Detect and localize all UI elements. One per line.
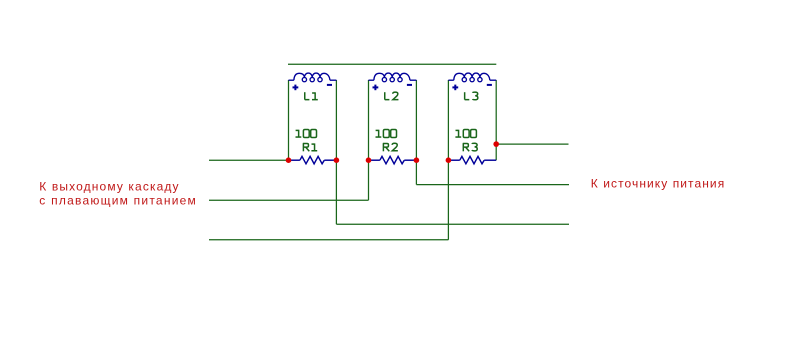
wire: left lead row 3 (to L3 cell bottom-left): [209, 239, 448, 241]
polarity - of L3: [487, 84, 492, 86]
wire: L1 cell right vertical: [335, 80, 337, 224]
label L3: [465, 92, 478, 100]
wire: right lead from L2 cell bottom-right: [416, 184, 569, 186]
value 100 of R2: [376, 129, 397, 137]
polarity - of L2: [407, 84, 412, 86]
wire: L3 cell right vertical: [495, 80, 497, 160]
label R3: [463, 143, 477, 151]
svg-text:К источнику питания: К источнику питания: [591, 177, 724, 191]
polarity + of L1: [293, 85, 299, 91]
resistor R1: [289, 156, 337, 163]
polarity + of L3: [452, 85, 458, 91]
inductor L3: [448, 73, 496, 82]
resistor R3: [448, 156, 496, 163]
junction node R1 right: [334, 157, 340, 163]
junction node R3 left: [446, 157, 452, 163]
wire: L1 cell left vertical: [288, 80, 290, 160]
label R1: [303, 143, 317, 151]
wire: left lead row 2 (to L2 cell bottom-left): [209, 199, 369, 201]
wire: L2 cell right vertical: [415, 80, 417, 185]
wire: right lead from L1 cell bottom-right: [336, 223, 569, 225]
wire: L2 cell left vertical: [368, 80, 370, 200]
label L1: [305, 92, 318, 99]
net label: К выходному каскаду с плавающим питанием: [39, 180, 196, 208]
inductor L2: [369, 73, 417, 82]
resistor R2: [369, 156, 417, 163]
value 100 of R3: [455, 129, 476, 137]
junction node R3 top-right: [493, 141, 499, 147]
junction node R1 left: [286, 157, 292, 163]
svg-text:К выходному каскаду: К выходному каскаду: [39, 180, 178, 194]
svg-text:с плавающим питанием: с плавающим питанием: [39, 193, 196, 207]
wire: right lead from L3 top node: [496, 143, 568, 145]
polarity + of L2: [373, 85, 379, 91]
wire: L3 cell left vertical: [447, 80, 449, 240]
wire: left lead to R1 row: [209, 159, 289, 161]
junction node R2 left: [366, 157, 372, 163]
value 100 of R1: [296, 129, 317, 137]
label R2: [383, 143, 398, 151]
junction node R2 right: [414, 157, 420, 163]
polarity - of L1: [327, 84, 332, 86]
wire: top horizontal rail: [288, 63, 496, 65]
label L2: [385, 92, 399, 100]
inductor L1: [289, 73, 337, 82]
